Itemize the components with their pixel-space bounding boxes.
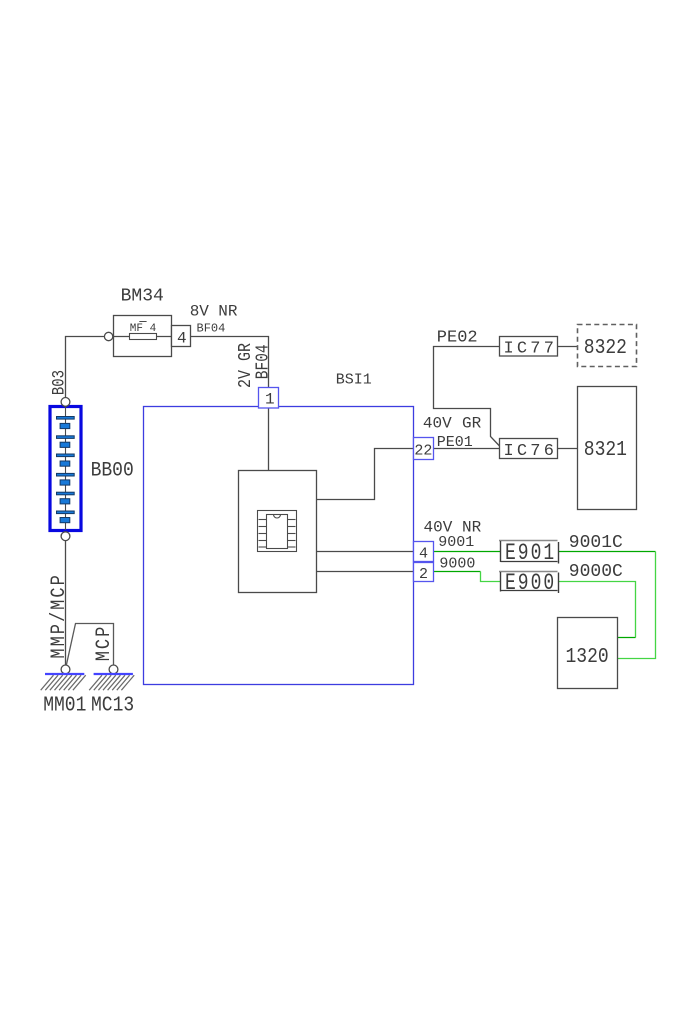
svg-text:NR: NR xyxy=(218,303,238,321)
IC symbol outer box xyxy=(258,511,297,552)
svg-text:E901: E901 xyxy=(505,541,556,567)
svg-text:8V: 8V xyxy=(190,303,210,321)
pin 1 box of BSI1 xyxy=(259,388,279,409)
battery plates xyxy=(57,417,75,523)
unit 1320 box xyxy=(558,618,618,689)
svg-text:9000: 9000 xyxy=(439,556,475,573)
ground MC13 hatching xyxy=(89,675,134,690)
IC chip body xyxy=(267,515,288,549)
svg-text:22: 22 xyxy=(414,443,432,460)
fuse box BM34 xyxy=(114,316,172,357)
IC pins left xyxy=(259,520,267,548)
BSI1 unit outline xyxy=(144,407,414,685)
battery top terminal circle xyxy=(61,398,70,407)
terminal circle BM34 xyxy=(104,332,112,340)
svg-text:40V: 40V xyxy=(423,415,452,433)
svg-text:PE01: PE01 xyxy=(437,434,473,451)
svg-text:8322: 8322 xyxy=(584,336,627,360)
svg-text:2: 2 xyxy=(419,566,428,583)
svg-text:MMP/MCP: MMP/MCP xyxy=(46,573,70,658)
wire PE02 branch to IC77 xyxy=(434,347,500,447)
wire battery positive to fuse box BM34 xyxy=(66,337,105,398)
svg-text:BB00: BB00 xyxy=(91,458,134,481)
svg-text:BF04: BF04 xyxy=(252,344,273,379)
ground MM01 hatching xyxy=(41,675,86,690)
ground MC13 blue bar xyxy=(94,673,133,675)
wire 9000 pin 2 xyxy=(434,571,481,573)
wire inner module to pin 4 xyxy=(317,551,414,553)
connector E900 box xyxy=(499,572,559,594)
wire IC77 to 8322 xyxy=(558,346,578,348)
svg-text:MF 4: MF 4 xyxy=(130,323,157,335)
IC pins right xyxy=(288,520,296,548)
svg-text:MM01: MM01 xyxy=(43,692,86,717)
wire IC76 to 8321 xyxy=(558,448,578,450)
svg-text:9001: 9001 xyxy=(438,534,474,551)
svg-text:PE02: PE02 xyxy=(437,329,478,348)
svg-text:BM34: BM34 xyxy=(121,287,164,307)
wire 9000 jog to E900 xyxy=(481,572,501,582)
svg-text:9001C: 9001C xyxy=(569,533,623,553)
svg-text:4: 4 xyxy=(177,330,187,348)
svg-text:E900: E900 xyxy=(505,571,556,597)
wire through fuse BM34 to pin 4 xyxy=(113,336,172,338)
svg-text:IC76: IC76 xyxy=(504,442,558,461)
wire 9001 pin 4 to E901 xyxy=(434,551,501,553)
connector IC77 box xyxy=(500,337,558,357)
pin 22 box xyxy=(414,438,434,460)
wire battery negative to ground MM01 xyxy=(65,541,67,665)
wire MMP/MCP link to ground MC13 xyxy=(66,624,113,666)
pin 4 box of BSI1 xyxy=(414,542,434,562)
unit 8322 dashed box xyxy=(578,325,637,367)
inner module box xyxy=(239,471,317,593)
wire inner module to pin 2 xyxy=(317,571,414,573)
svg-text:B03: B03 xyxy=(49,370,69,395)
wire pin 1 down into inner module xyxy=(268,408,270,471)
svg-text:1320: 1320 xyxy=(566,645,609,669)
fuse MF4 element xyxy=(130,334,157,340)
battery bottom terminal circle xyxy=(61,532,70,541)
battery BB00 xyxy=(50,407,81,531)
svg-text:1: 1 xyxy=(265,391,275,409)
svg-text:9000C: 9000C xyxy=(569,562,623,582)
svg-text:MCP: MCP xyxy=(92,625,116,662)
svg-text:GR: GR xyxy=(462,415,482,433)
ground MM01 terminal circle xyxy=(61,665,70,674)
pin 4 box of BM34 xyxy=(172,326,191,347)
wire 9001C corner down into 1320 xyxy=(618,552,656,659)
pin 2 box of BSI1 xyxy=(414,563,434,582)
unit 8321 box xyxy=(578,387,637,510)
svg-text:MC13: MC13 xyxy=(91,692,134,717)
svg-text:8321: 8321 xyxy=(584,438,627,462)
ground MM01 blue bar xyxy=(45,673,84,675)
wire 9001C E901 to corner xyxy=(559,551,656,553)
wire 9000C E900 to corner xyxy=(559,582,636,638)
wire PE01 pin 22 to IC76 xyxy=(434,448,500,450)
svg-text:4: 4 xyxy=(419,546,428,563)
wire inside BM34 xyxy=(114,336,172,338)
wire inner module to pin 22 xyxy=(317,449,414,500)
svg-text:BF04: BF04 xyxy=(197,321,226,335)
svg-text:IC77: IC77 xyxy=(504,340,558,359)
svg-text:BSI1: BSI1 xyxy=(336,372,372,389)
overline on MF 4 xyxy=(139,321,146,323)
connector IC76 box xyxy=(500,439,558,459)
wire BF04 pin 4 to pin 1 of BSI1 xyxy=(191,337,269,388)
ground MC13 terminal circle xyxy=(109,665,118,674)
battery center conductor xyxy=(65,407,67,531)
connector E901 box xyxy=(499,541,559,564)
wire 9000C into 1320 xyxy=(618,637,636,639)
IC notch xyxy=(274,515,281,519)
